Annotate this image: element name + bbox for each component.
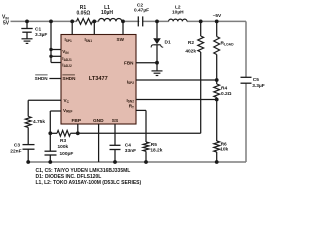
svg-text:LT3477: LT3477 — [89, 76, 108, 82]
svg-text:0.2Ω: 0.2Ω — [221, 91, 232, 97]
svg-text:R4: R4 — [221, 86, 227, 92]
svg-text:C3: C3 — [14, 142, 20, 148]
svg-text:100pF: 100pF — [60, 151, 74, 157]
svg-text:C5: C5 — [253, 77, 259, 83]
svg-text:D1: DIODES INC. DFLS120L: D1: DIODES INC. DFLS120L — [36, 174, 102, 180]
svg-text:3.3µF: 3.3µF — [252, 83, 264, 89]
svg-text:SW: SW — [117, 37, 125, 42]
svg-text:SS: SS — [112, 118, 119, 124]
svg-text:3.3µF: 3.3µF — [35, 32, 47, 38]
svg-text:0.47µF: 0.47µF — [134, 8, 149, 14]
svg-text:SHDN: SHDN — [35, 76, 49, 81]
svg-text:22nF: 22nF — [10, 148, 21, 154]
svg-text:C4: C4 — [125, 142, 131, 148]
svg-text:SHDN: SHDN — [62, 76, 76, 81]
svg-text:R5: R5 — [151, 142, 157, 148]
svg-text:C1: C1 — [35, 26, 41, 32]
svg-text:L1, L2: TOKO A915AY-100M (D53L: L1, L2: TOKO A915AY-100M (D53LC SERIES) — [36, 180, 142, 186]
svg-text:402k: 402k — [185, 48, 196, 54]
svg-text:FBP: FBP — [71, 118, 81, 124]
svg-text:D1: D1 — [165, 40, 171, 46]
svg-text:33nF: 33nF — [125, 148, 136, 154]
svg-text:R2: R2 — [188, 40, 194, 46]
svg-text:18.2k: 18.2k — [150, 148, 162, 154]
svg-text:10µH: 10µH — [101, 10, 113, 16]
svg-text:4.75k: 4.75k — [33, 119, 45, 125]
svg-text:–5V: –5V — [213, 13, 222, 19]
svg-text:100k: 100k — [58, 144, 69, 150]
svg-text:5V: 5V — [3, 20, 10, 26]
svg-text:10k: 10k — [220, 146, 228, 152]
svg-text:GND: GND — [93, 118, 104, 124]
svg-text:FBN: FBN — [124, 60, 134, 65]
svg-text:R3: R3 — [60, 138, 66, 144]
svg-text:0.05Ω: 0.05Ω — [77, 11, 91, 17]
svg-text:10µH: 10µH — [172, 9, 184, 15]
